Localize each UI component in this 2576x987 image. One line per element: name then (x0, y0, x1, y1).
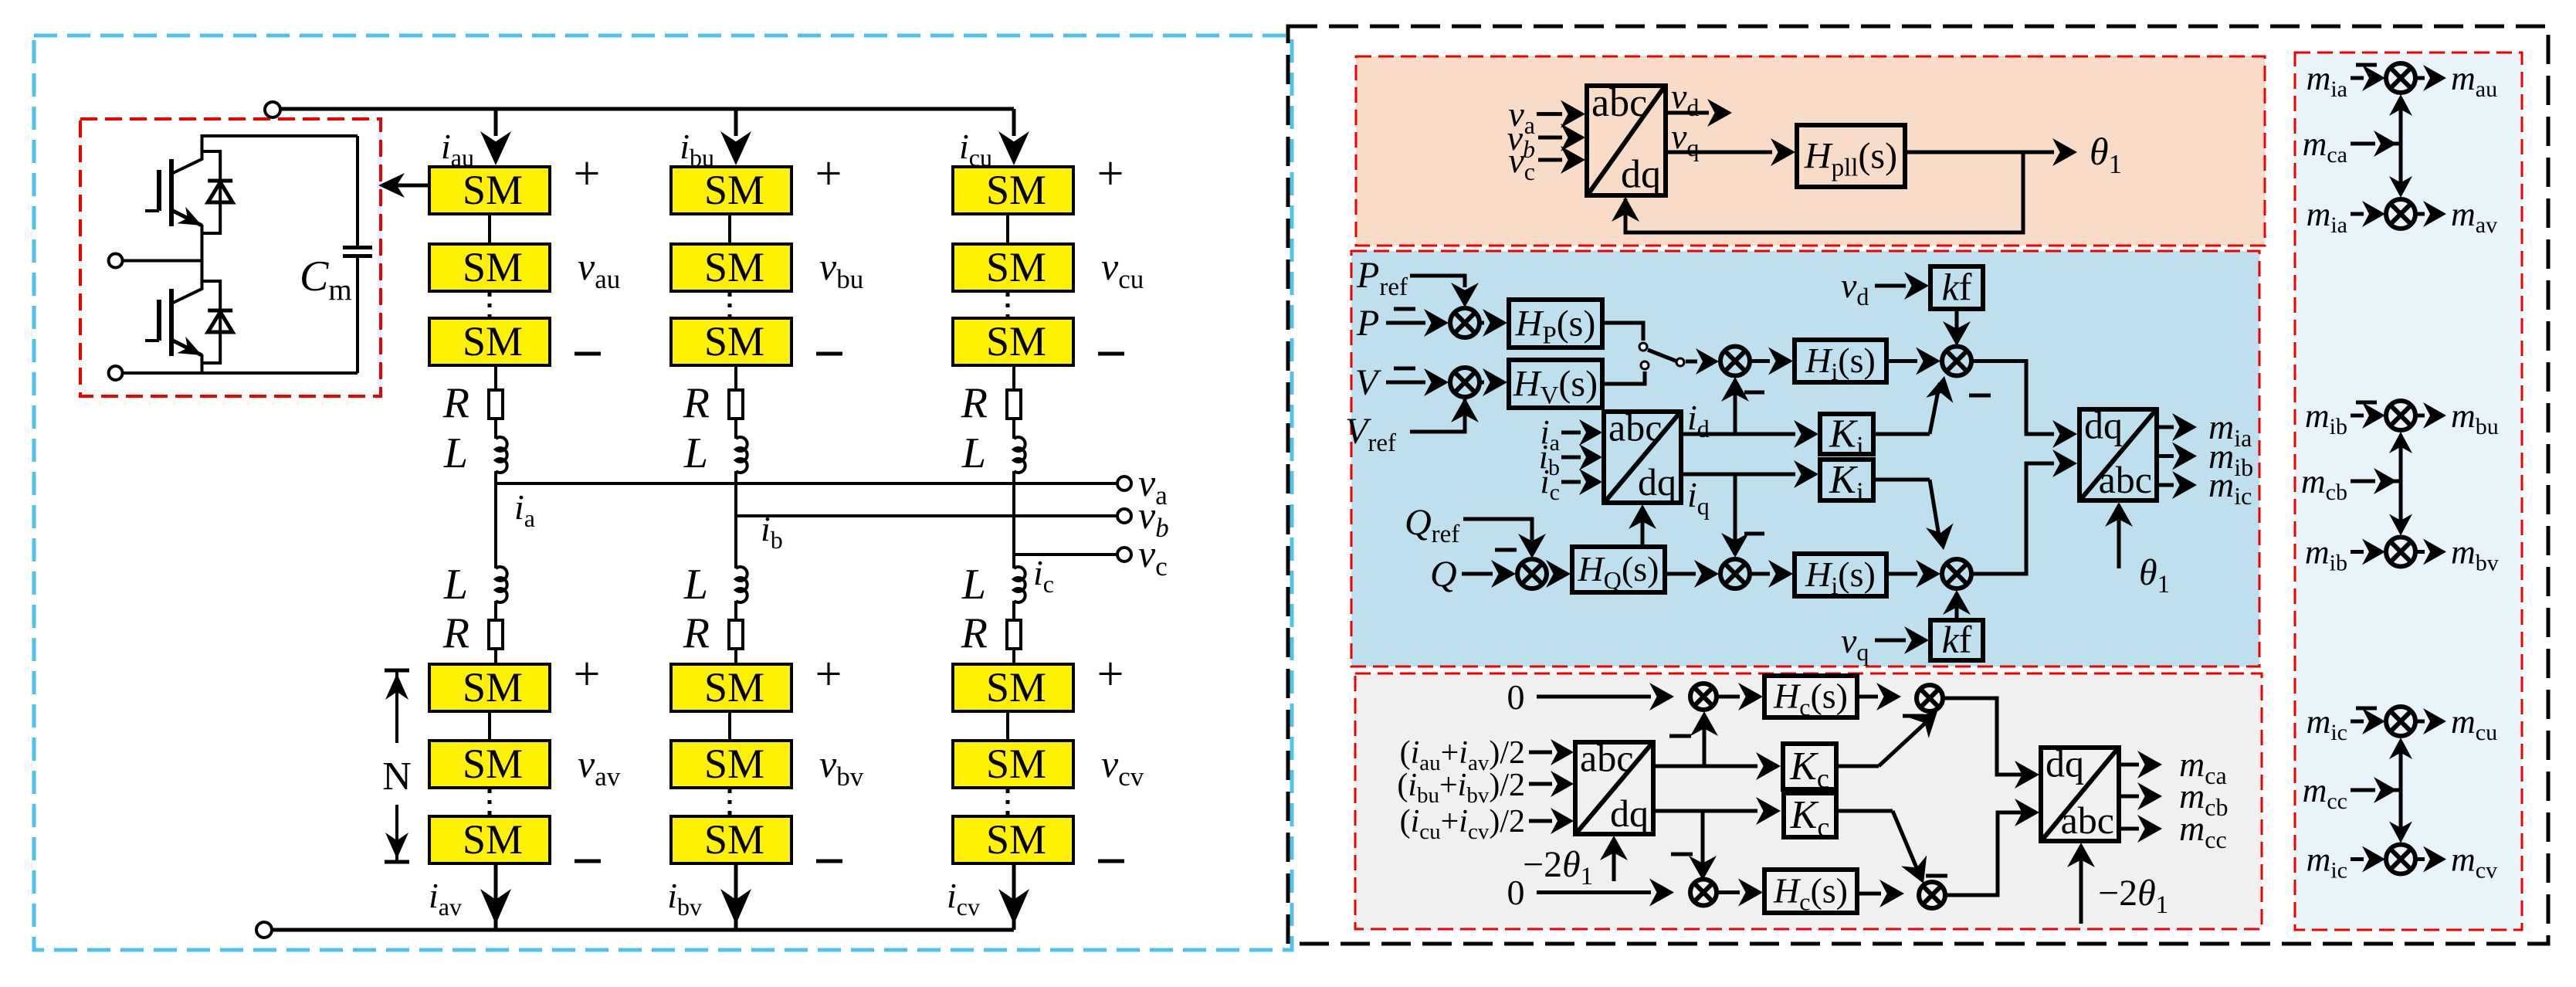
sum junction V (1450, 368, 1480, 397)
SM box upper arm phase a row 1 (429, 167, 550, 214)
block Hpll(s) (1797, 125, 1905, 187)
wire phase node to lower L b (734, 516, 737, 568)
svg-text:SM: SM (704, 816, 764, 863)
block Hi(s) lower (1795, 554, 1886, 596)
switch blade (1648, 350, 1677, 361)
multiplier circ upper (1917, 685, 1943, 711)
svg-text:L: L (443, 429, 468, 477)
svg-text:SM: SM (463, 318, 523, 365)
block Hc(s) upper (1764, 676, 1857, 717)
wire i_d to Ki upper (1681, 432, 1795, 436)
wire mult lower to dq/abc circ (1945, 812, 2031, 895)
wire P_ref to sum (1410, 276, 1465, 287)
inductor L lower b (736, 567, 747, 602)
svg-text:SM: SM (463, 167, 523, 213)
wire R to SM1 lower b (734, 649, 737, 664)
freewheel diode symbol (208, 309, 232, 313)
sum junction circ upper (1690, 683, 1717, 710)
wire Hc to mult upper (1857, 695, 1878, 699)
control system outer box (black dashed) (1288, 26, 2548, 944)
block Hi(s) upper (1795, 340, 1886, 382)
wire top bus drop phase a with arrow i_au (494, 109, 498, 136)
sum junction circ lower (1690, 880, 1717, 906)
svg-text:Q: Q (1430, 554, 1457, 595)
svg-text:SM: SM (986, 741, 1046, 787)
inductor L upper c (1014, 437, 1025, 473)
wire sum to HV (1480, 381, 1484, 385)
wire between SM1-SM2 lower a (488, 711, 491, 741)
IGBT body bar (169, 289, 174, 356)
svg-text:SM: SM (463, 664, 523, 711)
IGBT emitter wire (201, 354, 204, 364)
dq/abc block modulation (2079, 409, 2157, 500)
SM box lower arm phase c row 2 (953, 741, 1073, 788)
wire between SM1-SM2 upper b (728, 214, 731, 244)
svg-text:SM: SM (463, 816, 523, 863)
label - lower arm b (816, 860, 842, 863)
wire SM3 to bottom bus with arrow i_av (494, 863, 498, 930)
PLL control region box (peach) (1356, 56, 2265, 246)
svg-text:Hi(s): Hi(s) (1805, 341, 1876, 385)
wire m_ca out (2119, 763, 2139, 767)
SM box lower arm phase c row 3 (953, 816, 1073, 863)
wire id feedback up into sum (1734, 386, 1737, 434)
svg-text:Hc(s): Hc(s) (1773, 677, 1848, 721)
wire 0 to sum upper (1537, 695, 1651, 699)
wire v_q to Hpll (1666, 151, 1772, 154)
wire m_ic out (2157, 483, 2174, 487)
svg-text:abc: abc (1608, 406, 1662, 449)
dotted wire SM2-SM3 lower c (1006, 789, 1010, 815)
dq/abc block circulating out (2041, 748, 2119, 841)
SM box upper arm phase b row 1 (671, 167, 791, 214)
wire m_cc out (2119, 827, 2139, 831)
wire L-R lower a (494, 601, 497, 620)
multiplier bv bottom (2386, 538, 2415, 567)
multiplier circ lower (1919, 882, 1945, 908)
svg-text:R: R (683, 379, 710, 427)
svg-text:kf: kf (1942, 618, 1972, 661)
terminal lower-left of submodule (109, 366, 123, 380)
svg-text:SM: SM (463, 741, 523, 787)
SM box upper arm phase b row 2 (671, 244, 791, 291)
wire R to SM1 lower a (494, 649, 497, 664)
multiplier lower (1942, 559, 1971, 588)
resistor R upper a (489, 390, 503, 419)
wire top bus drop phase c with arrow i_cu (1012, 109, 1016, 136)
svg-text:+: + (815, 648, 842, 700)
resistor R lower a (489, 620, 503, 649)
block HP(s) (1509, 300, 1602, 348)
SM box upper arm phase c row 2 (953, 244, 1073, 291)
wire bridge midpoint vertical (201, 226, 204, 289)
block kf upper (1930, 266, 1983, 309)
multiplier av bottom (2386, 199, 2415, 229)
wire v_a into abc/dq (1537, 112, 1562, 116)
inductor L lower a (496, 567, 507, 602)
SM box lower arm phase b row 3 (671, 816, 791, 863)
MMC circuit outer box (blue dashed) (34, 36, 1292, 950)
svg-text:SM: SM (986, 244, 1046, 290)
wire theta to abc/dq currents (1641, 514, 1645, 547)
SM box lower arm phase a row 1 (429, 664, 550, 711)
svg-text:Hi(s): Hi(s) (1805, 555, 1876, 599)
wire kf down to multiplier (1955, 309, 1959, 337)
svg-text:dq: dq (1638, 460, 1676, 504)
wire SM3 to R upper c (1012, 365, 1015, 390)
block Kc upper (1783, 744, 1836, 789)
IGBT gate bar (157, 300, 161, 341)
N submodule count marker (385, 669, 409, 673)
label - upper arm b (816, 352, 842, 356)
SM box upper arm phase b row 3 (671, 318, 791, 365)
wire v_c into abc/dq (1538, 158, 1562, 162)
abc/dq block circulating (1575, 742, 1653, 834)
svg-text:Hc(s): Hc(s) (1773, 871, 1848, 916)
wire Hi to multiplier (1886, 359, 1917, 363)
resistor R lower b (729, 620, 743, 649)
wire mult to m_bu (2415, 414, 2425, 418)
IGBT emitter lead with arrow (171, 210, 202, 226)
svg-text:SM: SM (986, 318, 1046, 365)
svg-text:(ibu+ibv)/2: (ibu+ibv)/2 (1397, 768, 1525, 808)
svg-text:+: + (1097, 648, 1124, 700)
wire SM3 to bottom bus with arrow i_cv (1012, 863, 1016, 930)
svg-text:L: L (683, 561, 708, 609)
wire m_ib out (2157, 454, 2174, 458)
wire m_ib bottom into mult (2351, 550, 2364, 554)
wire SM3 to R upper a (494, 365, 497, 390)
vertical wire m_cb (2399, 439, 2403, 529)
wire mult to m_bv (2415, 550, 2425, 554)
multiplier cu top (2386, 707, 2415, 736)
IGBT gate lead (145, 209, 159, 212)
abc/dq block U-PLL (1587, 86, 1666, 195)
svg-text:kf: kf (1942, 266, 1972, 309)
SM box upper arm phase c row 3 (953, 318, 1073, 365)
IGBT body bar (169, 159, 174, 226)
wire dq q-axis output to Kc lower (1653, 809, 1757, 813)
wire kf up to multiplier lower (1955, 598, 1959, 620)
wire Ki lower diagonal to multiplier lower (1873, 478, 1930, 482)
svg-text:L: L (961, 429, 986, 477)
block kf lower (1930, 620, 1983, 660)
svg-text:SM: SM (704, 741, 764, 787)
svg-text:R: R (961, 609, 988, 657)
dotted wire SM2-SM3 lower a (488, 789, 492, 815)
wire SM detail top rail (202, 136, 358, 159)
freewheel diode symbol (208, 179, 232, 183)
wire v_q to kf (1875, 639, 1906, 643)
svg-text:SM: SM (704, 167, 764, 213)
dotted wire SM2-SM3 lower b (728, 789, 732, 815)
freewheel diode wire (202, 281, 221, 363)
power/current control region box (blue) (1351, 251, 2259, 666)
resistor R upper c (1007, 390, 1021, 419)
wire sum to Hc lower (1717, 890, 1740, 894)
capacitor Cm (356, 136, 359, 248)
vertical wire m_cc (2399, 744, 2403, 836)
multiplier bu top (2386, 401, 2415, 430)
wire bottom DC bus (272, 928, 1014, 932)
circulating current control region box (gray) (1355, 673, 2262, 929)
wire phase node to lower L a (494, 483, 497, 568)
wire L to phase node b (734, 471, 737, 516)
SM box lower arm phase a row 3 (429, 816, 550, 863)
wire R-L upper b (734, 419, 737, 439)
svg-text:SM: SM (704, 318, 764, 365)
wire i_a input (1561, 431, 1581, 435)
wire m_cb out (2119, 795, 2139, 799)
PLL feedback wire (1625, 152, 2023, 232)
IGBT gate lead (145, 339, 159, 342)
wire sum to HP (1480, 321, 1484, 325)
wire input c circulating (1529, 819, 1552, 823)
arrow SM1a to submodule detail (390, 184, 429, 188)
label - lower arm a (575, 860, 601, 863)
wire m_ia out (2157, 426, 2174, 429)
block Ki upper (1820, 414, 1873, 454)
wire i_b input (1561, 456, 1581, 460)
wire m_cb into node (2351, 480, 2375, 483)
wire -2theta1 into dq/abc circ (2079, 852, 2083, 924)
submodule detail box (red dashed) (80, 119, 381, 396)
wire L-R lower c (1012, 601, 1015, 620)
wire between SM1-SM2 upper a (488, 214, 491, 244)
svg-text:dq: dq (1610, 792, 1649, 835)
wire dq d-axis output to Kc (1653, 765, 1757, 768)
dotted wire SM2-SM3 upper a (488, 293, 492, 317)
svg-text:SM: SM (463, 244, 523, 290)
wire mult to m_cu (2415, 720, 2425, 724)
wire sum to Hi lower (1750, 572, 1770, 576)
block HQ(s) (1572, 547, 1665, 592)
SM box lower arm phase b row 2 (671, 741, 791, 788)
wire v_d to kf (1875, 284, 1906, 288)
svg-text:P: P (1356, 303, 1379, 344)
block HV(s) (1509, 360, 1602, 408)
wire top bus drop phase b with arrow i_bu (734, 109, 738, 136)
wire L to phase node c (1012, 471, 1015, 555)
wire Ki upper diagonal to multiplier upper (1873, 432, 1930, 436)
wire m_cc into node (2351, 789, 2375, 792)
svg-text:SM: SM (986, 664, 1046, 711)
wire multiplier lower to dq/abc (1971, 463, 2054, 574)
wire mult to m_au (2415, 76, 2425, 80)
wire Kc lower diagonal to mult (1836, 809, 1893, 813)
multiplier au top (2386, 63, 2415, 93)
svg-text:dq: dq (2084, 404, 2123, 447)
block Hc(s) lower (1764, 870, 1857, 913)
svg-text:N: N (382, 755, 412, 799)
abc/dq block currents (1604, 412, 1681, 503)
wire R-L upper a (494, 419, 497, 439)
svg-text:dq: dq (2046, 742, 2084, 785)
block Kc lower (1784, 793, 1836, 837)
sum junction iq (1720, 559, 1750, 588)
svg-text:abc: abc (2099, 458, 2152, 501)
minus at Q sum (1495, 548, 1517, 552)
freewheel diode wire (202, 151, 221, 233)
svg-text:+: + (1097, 148, 1124, 200)
svg-text:abc: abc (2061, 799, 2114, 842)
wire m_ic bottom into mult (2351, 857, 2364, 861)
wire Q_ref to sum (1463, 519, 1532, 541)
wire m_ib into mult with minus (2351, 414, 2364, 418)
wire between SM1-SM2 lower b (728, 711, 731, 741)
wire phase c output to terminal v_c (1014, 553, 1117, 556)
svg-text:dq: dq (1621, 153, 1661, 197)
wire top DC bus (280, 107, 1014, 111)
svg-text:SM: SM (704, 244, 764, 290)
wire V into sum with minus (1386, 381, 1425, 385)
wire m_ic into mult with minus (2351, 720, 2364, 724)
SM box upper arm phase a row 3 (429, 318, 550, 365)
wire SM3 to R upper b (734, 365, 737, 390)
label - lower arm c (1098, 860, 1124, 863)
wire Q into sum (1462, 572, 1493, 576)
wire 0 to sum lower (1537, 890, 1651, 894)
svg-text:L: L (961, 561, 986, 609)
inductor L upper b (736, 437, 747, 473)
branch down to sum lower with minus (1701, 811, 1705, 871)
dotted wire SM2-SM3 upper b (728, 293, 732, 317)
wire v_d output arrow (1666, 111, 1709, 115)
modulation combine region box (light blue, right column) (2295, 53, 2522, 930)
multiplier upper (1942, 347, 1971, 376)
wire m_ia into mult with minus (2351, 76, 2364, 80)
wire phase a output to terminal v_a (496, 482, 1117, 485)
multiplier cv bottom (2386, 845, 2415, 874)
inductor L upper a (496, 437, 507, 473)
wire Hc lower to mult (1857, 892, 1881, 896)
svg-text:L: L (683, 429, 708, 477)
terminal bottom DC bus (256, 922, 272, 938)
terminal top DC bus (265, 102, 280, 117)
IGBT gate bar (157, 170, 161, 211)
label - upper arm a (575, 352, 601, 356)
switch HP output (1602, 323, 1643, 341)
IGBT collector lead (171, 266, 202, 304)
wire SM3 to bottom bus with arrow i_bv (734, 863, 738, 930)
wire i_q to Ki lower (1681, 473, 1795, 477)
wire P into sum with minus (1386, 321, 1425, 325)
svg-text:abc: abc (1580, 737, 1633, 780)
wire phase node to lower L c (1012, 555, 1015, 568)
wire m_ca into node (2351, 142, 2375, 146)
svg-text:(icu+icv)/2: (icu+icv)/2 (1400, 804, 1525, 844)
IGBT emitter lead with arrow (171, 340, 202, 355)
vertical wire m_ca (2399, 101, 2403, 191)
svg-text:SM: SM (704, 664, 764, 711)
wire L-R lower b (734, 601, 737, 620)
wire mult to m_cv (2415, 857, 2425, 861)
wire mid terminal to bridge midpoint (122, 259, 202, 263)
wire phase b output to terminal v_b (736, 514, 1117, 517)
resistor R lower c (1007, 620, 1021, 649)
wire input a circulating (1529, 751, 1552, 755)
wire Hpll output to theta1 (1905, 151, 2054, 154)
switch HV output (1602, 371, 1645, 384)
svg-text:0: 0 (1507, 873, 1525, 912)
wire sum to Hi upper (1750, 359, 1770, 363)
label - upper arm c (1098, 352, 1124, 356)
minus at iq sum (1744, 532, 1764, 536)
wire v_b into abc/dq (1538, 136, 1562, 140)
minus at id sum (1744, 391, 1764, 395)
wire V_ref to sum (1410, 399, 1465, 432)
svg-text:R: R (442, 379, 469, 427)
svg-text:R: R (442, 609, 469, 657)
svg-text:abc: abc (1591, 81, 1647, 125)
wire R to SM1 lower c (1012, 649, 1015, 664)
wire -2theta1 into abc/dq (1612, 845, 1616, 881)
wire switch to sum id (1686, 360, 1697, 364)
sum junction P (1450, 308, 1480, 337)
wire m_ia bottom into mult (2351, 212, 2364, 216)
sum junction id (1720, 347, 1750, 376)
svg-text:R: R (683, 609, 710, 657)
svg-text:L: L (443, 561, 468, 609)
terminal upper-left of submodule (109, 254, 123, 268)
minus at multiplier upper (1969, 394, 1991, 398)
wire R-L upper c (1012, 419, 1015, 439)
minus at mult circ upper (1903, 714, 1924, 718)
svg-text:+: + (815, 148, 842, 200)
dotted wire SM2-SM3 upper c (1006, 293, 1010, 317)
svg-text:R: R (961, 379, 988, 427)
wire SM detail bottom rail (116, 371, 358, 375)
wire mult to m_av (2415, 212, 2425, 216)
inductor L lower c (1014, 567, 1025, 602)
wire multiplier upper to dq/abc (1971, 361, 2054, 435)
svg-text:0: 0 (1507, 677, 1525, 717)
svg-text:+: + (574, 148, 601, 200)
svg-text:SM: SM (986, 816, 1046, 863)
SM box lower arm phase a row 2 (429, 741, 550, 788)
wire HQ to sum iq (1665, 572, 1696, 576)
wire theta1 into dq/abc (2117, 511, 2121, 568)
SM box lower arm phase c row 1 (953, 664, 1073, 711)
branch up to sum upper with minus (1703, 720, 1707, 766)
IGBT collector lead (171, 136, 202, 174)
SM box upper arm phase a row 2 (429, 244, 550, 291)
minus at mult circ lower (1926, 874, 1947, 878)
wire input b circulating (1529, 782, 1552, 786)
sum junction Q (1517, 559, 1547, 588)
block Ki lower (1820, 460, 1873, 500)
wire sum to HQ (1547, 572, 1547, 576)
wire mult upper to dq/abc circ (1943, 698, 2031, 775)
svg-text:V: V (1355, 362, 1381, 403)
wire Hi lower to multiplier (1886, 572, 1917, 576)
wire emitter T2 to bottom rail (201, 354, 204, 373)
SM box upper arm phase c row 1 (953, 167, 1073, 214)
resistor R upper b (729, 390, 743, 419)
wire between SM1-SM2 lower c (1006, 711, 1009, 741)
IGBT emitter wire (201, 225, 204, 234)
SM box lower arm phase b row 1 (671, 664, 791, 711)
wire L to phase node a (494, 471, 497, 483)
wire iq feedback down into sum (1734, 474, 1737, 550)
wire between SM1-SM2 upper c (1006, 214, 1009, 244)
wire i_c input (1561, 480, 1581, 484)
svg-text:SM: SM (986, 167, 1046, 213)
wire sum to Hc upper (1717, 695, 1740, 699)
wire Kc upper diagonal to mult (1836, 765, 1879, 768)
svg-text:+: + (574, 648, 601, 700)
